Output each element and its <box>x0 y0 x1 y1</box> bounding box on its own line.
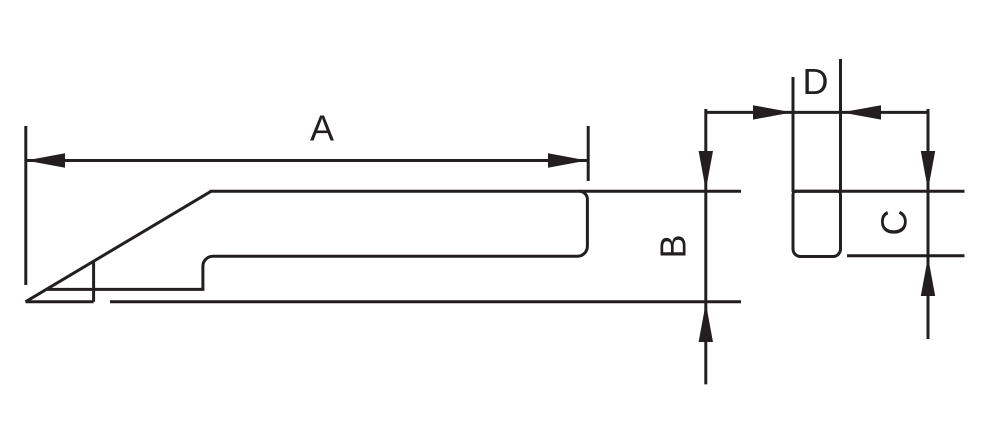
svg-text:B: B <box>653 234 694 258</box>
svg-text:A: A <box>310 108 334 149</box>
svg-text:D: D <box>803 61 829 102</box>
svg-text:C: C <box>873 210 914 236</box>
